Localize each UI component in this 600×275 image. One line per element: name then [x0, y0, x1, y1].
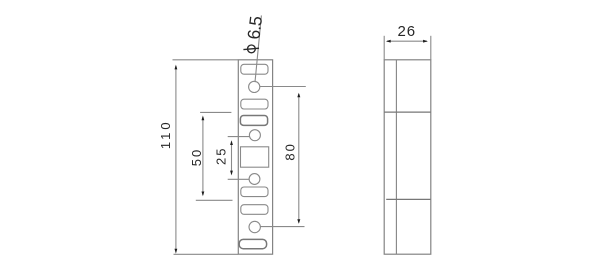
- side view outline: [384, 60, 431, 254]
- label φ6.5: phi symbol bar: [243, 48, 259, 49]
- dim 50 arrow up: [202, 116, 205, 121]
- dim 50 arrow down: [202, 192, 205, 197]
- dim 25 arrow down: [230, 171, 233, 176]
- dim 80 arrow down: [297, 219, 300, 224]
- slot 3: [240, 116, 267, 126]
- dim 80 extension line top (from circle 1): [260, 86, 306, 88]
- dim 26 line: [387, 40, 427, 42]
- hole circle 1 (φ6.5): [249, 81, 260, 92]
- leader line for φ6.5: [255, 15, 261, 82]
- dim 26 extension line right: [430, 36, 432, 60]
- svg-text:25: 25: [213, 147, 228, 165]
- hole circle 2: [249, 130, 260, 141]
- side view inner vertical line: [395, 60, 397, 254]
- slot 6: [239, 239, 266, 248]
- dim 25 extension line top (from circle 2): [228, 136, 250, 138]
- slot 5: [241, 205, 268, 215]
- plate outline (front view): [238, 60, 272, 254]
- svg-text:50: 50: [189, 148, 204, 166]
- dim 110 line: [175, 66, 177, 250]
- slot 1: [241, 64, 268, 74]
- dim 50 extension line top: [200, 111, 231, 113]
- dim 110 arrow up: [175, 65, 178, 70]
- svg-text:6.5: 6.5: [243, 15, 266, 40]
- label φ6.5: phi symbol circle: [248, 45, 256, 53]
- slot 2: [241, 99, 268, 109]
- dim 26 extension line left: [383, 36, 385, 60]
- dim 110 extension line top: [173, 59, 239, 61]
- square hole: [241, 147, 269, 167]
- dim 110 extension line bottom: [174, 253, 239, 255]
- dim 50 line: [202, 117, 204, 195]
- hole circle 4: [249, 221, 260, 232]
- dim 26 arrow right: [423, 40, 428, 43]
- side view bend line upper: [384, 111, 431, 113]
- side view bend line lower: [386, 198, 431, 200]
- hole circle 3: [249, 174, 260, 185]
- slot 4: [241, 187, 268, 197]
- svg-text:110: 110: [158, 119, 173, 149]
- dim 25 line: [231, 142, 233, 175]
- dim 80 arrow up: [297, 93, 300, 98]
- dim 26 arrow left: [386, 40, 391, 43]
- dim 80 extension line bottom (from circle 4): [260, 226, 304, 228]
- dim 110 arrow down: [175, 249, 178, 254]
- dim 25 extension line bottom (from circle 3): [228, 178, 250, 180]
- dim 50 extension line bottom: [196, 199, 233, 201]
- dim 25 arrow up: [230, 140, 233, 145]
- dim 80 line: [298, 94, 300, 223]
- svg-text:26: 26: [397, 23, 416, 40]
- svg-text:80: 80: [283, 142, 298, 160]
